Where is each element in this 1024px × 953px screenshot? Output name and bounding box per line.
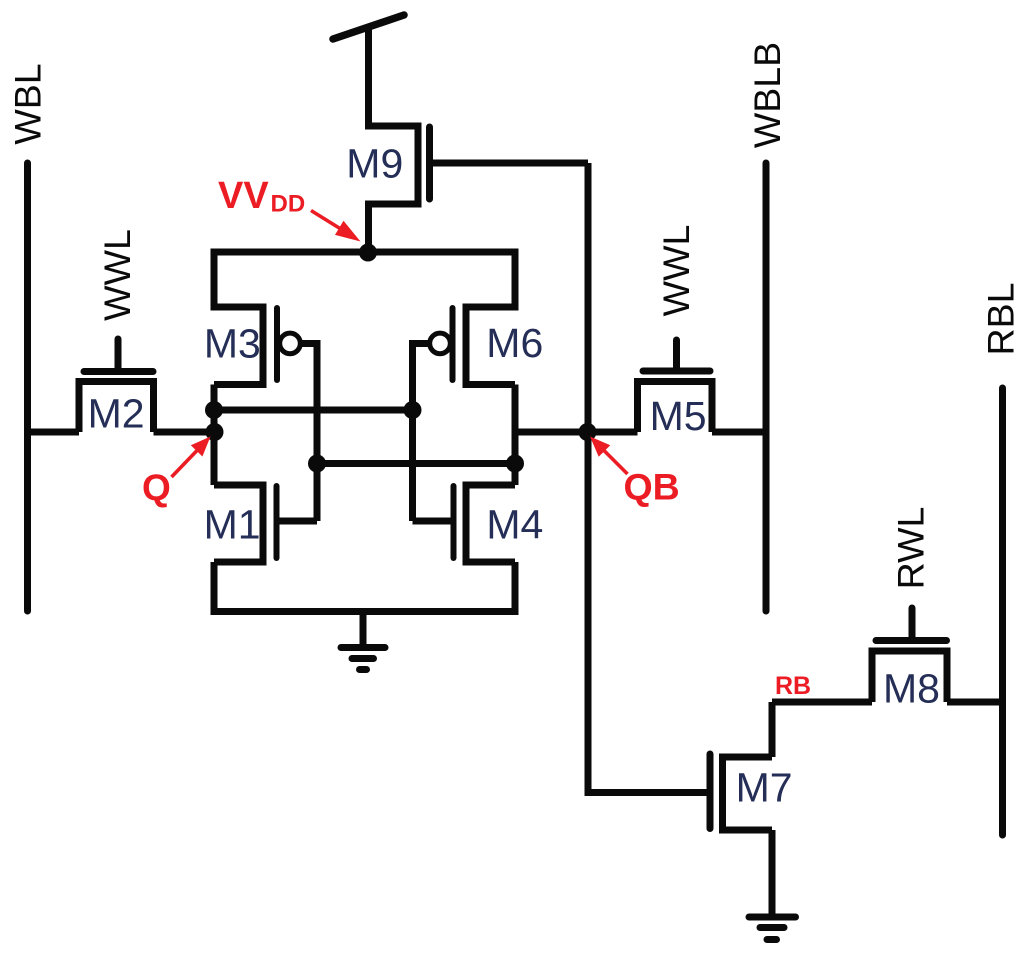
wire M7 source to ground [769,830,776,914]
wire right rail bottom to ground rail [512,562,519,615]
svg-text:M2: M2 [88,391,145,437]
svg-text:M8: M8 [883,666,940,712]
transistor M9 source jog [365,201,418,208]
wire ground rail [211,608,519,615]
transistor M4 source jog [466,559,515,566]
arrow QB [604,451,628,475]
svg-text:M1: M1 [204,502,261,548]
node Q junction dot [206,423,224,441]
svg-text:WBLB: WBLB [746,42,788,148]
wire WBLB bitline [763,163,770,611]
wire right rail top (M6 source) [466,249,515,308]
node QB junction dot [579,423,597,441]
ground symbol bar 1 [341,644,385,651]
transistor M5 gate bar [643,368,710,375]
ground symbol bar 3 (M7) [767,936,777,943]
wire right gate column [409,340,416,521]
svg-text:QB: QB [624,466,680,508]
node dot at right rail QB link [506,455,524,473]
wire WBL bitline [24,163,31,611]
transistor M4 gate bar [451,486,457,558]
transistor M8 gate bar [876,637,947,644]
node VVDD junction dot [359,244,377,262]
transistor M3 drain jog [214,381,263,388]
wire cross-couple QB to M3/M1 gates [317,460,515,467]
svg-text:RBL: RBL [980,283,1022,356]
wire right rail mid (node QB) [512,385,519,486]
transistor M9 channel [415,123,422,208]
transistor M1 source jog [214,559,263,566]
transistor M2 channel [76,382,158,433]
wire supply to M9 drain [365,27,372,126]
wire M9 gate to QB column [430,160,589,167]
transistor M1 drain jog [214,482,263,489]
svg-text:M9: M9 [346,141,403,187]
transistor M6 drain jog [466,381,515,388]
transistor M5 channel [634,382,716,433]
svg-text:RWL: RWL [890,507,932,590]
transistor M2 gate bar [84,368,153,375]
svg-text:M4: M4 [486,502,543,548]
wire M8 to RBL [947,699,1003,706]
wire M3 gate to left gate column [300,340,317,347]
wire QB rail to M5 [515,429,638,436]
transistor M4 channel [463,482,470,566]
wire cross-couple Q to M6/M4 gates [214,407,413,414]
ground stub [360,612,367,646]
transistor M7 gate bar [707,754,714,829]
transistor M1 channel [260,482,267,566]
transistor M7 drain jog [719,754,772,761]
node dot at M6/M4 gate column [404,401,422,419]
wire VVDD rail [214,249,515,256]
ground symbol bar 2 (M7) [760,924,784,931]
wire M7 drain to node RB [769,702,776,757]
svg-text:Q: Q [142,467,171,508]
transistor M3 channel [260,304,267,389]
ground symbol bar 2 [352,655,374,662]
transistor M8 gate stub to RWL [909,608,916,637]
svg-text:WWL: WWL [96,229,138,321]
node Q cross-couple dot [205,401,223,419]
svg-text:M5: M5 [650,393,707,439]
wire M4 gate to right gate column [413,518,454,525]
ground symbol bar 1 (M7) [749,914,796,921]
transistor M4 drain jog [466,482,515,489]
wire M9 source to node VVDD [365,204,372,252]
wire left rail bottom to ground rail [211,562,218,615]
svg-text:M3: M3 [204,321,261,367]
transistor M5 gate stub to WWL [673,340,680,368]
transistor M6 channel [463,304,470,389]
ground symbol bar 3 [360,666,367,673]
wire node RB to M8 [772,699,872,706]
transistor M9 gate bar [426,127,433,199]
svg-text:VV: VV [218,175,269,217]
transistor M3 gate bar [274,308,280,380]
node dot at M3/M1 gate column [308,455,326,473]
wire WBL to M2 source [24,429,79,436]
transistor M1 gate bar [274,486,280,558]
wire M1 gate to left gate column [277,518,318,525]
wire M6 gate to right gate column [413,340,430,347]
svg-text:RB: RB [775,672,811,700]
transistor M3 body bubble [280,333,301,354]
wire M5 to WBLB [712,429,766,436]
arrow VVDD [311,211,340,229]
svg-text:DD: DD [271,191,306,218]
transistor M2 gate stub to WWL [115,339,122,368]
transistor M9 drain jog [365,123,418,130]
wire RBL bitline [999,388,1006,835]
arrow Q [172,451,198,478]
transistor M8 channel [869,651,951,702]
wire M2 drain to node Q [154,429,215,436]
svg-text:WBL: WBL [7,63,49,144]
wire left gate column [314,340,321,521]
transistor M6 gate bar [450,308,456,380]
wire left rail top (M3 source) [214,249,263,308]
svg-text:M7: M7 [736,765,793,811]
svg-text:WWL: WWL [655,225,697,317]
transistor M6 body bubble [430,333,451,354]
svg-text:M6: M6 [486,320,543,366]
transistor M7 channel [719,754,726,834]
wire left rail mid (node Q) [211,385,218,486]
transistor M7 source jog [719,827,772,834]
supply VDD symbol (slanted bar) [333,15,404,39]
wire QB column (M9 gate to M7 gate) [588,163,707,793]
